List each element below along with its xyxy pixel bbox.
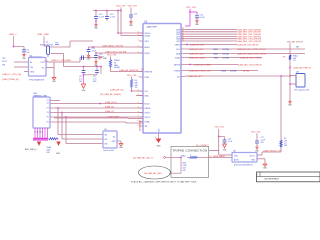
svg-text:VRG: VRG: [145, 41, 150, 43]
svg-text:(CAM_AF_SDA_FUSE_1V8 (R: (CAM_AF_SDA_FUSE_1V8 (R: [237, 52, 266, 55]
svg-text:B2: B2: [182, 33, 184, 35]
svg-text:R8: R8: [283, 57, 285, 59]
svg-text:I2C_DATA_MAIN: I2C_DATA_MAIN: [209, 155, 225, 158]
svg-text:(2R2A): (2R2A): [223, 56, 230, 59]
svg-text:DNI: DNI: [47, 152, 51, 154]
svg-text:P4: P4: [47, 112, 49, 114]
svg-text:B2: B2: [182, 40, 184, 42]
svg-text:1%: 1%: [293, 60, 296, 62]
svg-text:VREG: VREG: [175, 45, 181, 47]
svg-text:R8A2: R8A2: [213, 52, 219, 55]
svg-text:DNI: DNI: [284, 145, 288, 147]
svg-text:VDD_1V8: VDD_1V8: [127, 75, 137, 77]
svg-text:IN2: IN2: [105, 139, 108, 141]
svg-text:1%: 1%: [135, 87, 138, 89]
svg-text:A11A12A13A1: A11A12A13A1: [138, 120, 141, 131]
svg-text:PLACE ALL CAMERA COMPONENTS N: PLACE ALL CAMERA COMPONENTS NEXT TO BATT…: [131, 181, 197, 183]
svg-text:A1/IN: A1/IN: [234, 159, 239, 162]
svg-text:VDD_1V8: VDD_1V8: [251, 131, 261, 133]
svg-text:CAM_HREF: CAM_HREF: [108, 115, 120, 118]
svg-text:TP8: TP8: [2, 58, 5, 60]
svg-text:(R) CAM_AF_CAL(: (R) CAM_AF_CAL(: [144, 172, 162, 175]
svg-text:MCLK: MCLK: [145, 104, 151, 106]
svg-text:(CAM_AF_SCL: (CAM_AF_SCL: [189, 48, 204, 51]
svg-text:R5A1: R5A1: [181, 155, 186, 158]
svg-text:TPS_regulator_R8: TPS_regulator_R8: [294, 89, 309, 92]
svg-text:(CAM_AF_SCL: (CAM_AF_SCL: [110, 88, 125, 91]
svg-text:VDD_1V8: VDD_1V8: [186, 7, 197, 9]
svg-text:GND: GND: [56, 153, 61, 155]
svg-text:(CAM_AF_PWDN_1V8: (CAM_AF_PWDN_1V8: [189, 69, 211, 72]
svg-text:(CAM_AF_I2C: (CAM_AF_I2C: [188, 75, 202, 78]
svg-text:SDA2: SDA2: [175, 57, 180, 60]
svg-text:SCL/O: SCL/O: [250, 156, 256, 158]
svg-text:P3: P3: [47, 108, 49, 110]
svg-text:4: 4: [138, 40, 139, 42]
svg-text:CAM0_MIPI: CAM0_MIPI: [146, 26, 157, 29]
svg-text:SCL: SCL: [176, 49, 180, 51]
svg-text:0.1uF: 0.1uF: [110, 16, 116, 18]
svg-text:PWDN: PWDN: [174, 71, 180, 73]
svg-text:(CAM_RT: (CAM_RT: [105, 110, 115, 113]
svg-text:TP9: TP9: [55, 42, 58, 44]
svg-text:BOX-XXX-GROWN-TR: BOX-XXX-GROWN-TR: [234, 165, 253, 167]
svg-text:0: 0: [190, 155, 191, 157]
svg-text:Touch switch: Touch switch: [103, 149, 114, 152]
svg-text:(CAM_AF_PWR (R: (CAM_AF_PWR (R: [293, 66, 311, 69]
svg-text:NO_CONNECT: NO_CONNECT: [196, 145, 209, 147]
svg-text:TRIPAD CONNECTION: TRIPAD CONNECTION: [173, 149, 208, 153]
svg-text:VDD_AF_2V8_(R: VDD_AF_2V8_(R: [287, 41, 303, 44]
svg-text:TM: TM: [145, 126, 148, 128]
svg-text:(CAM_AF_RESETB: (CAM_AF_RESETB: [119, 69, 138, 72]
svg-text:DVDD: DVDD: [145, 53, 151, 55]
svg-text:1 2 3 4 5 6: 1 2 3 4 5 6: [34, 131, 43, 133]
svg-text:(R): (R): [141, 69, 144, 71]
svg-text:PWDN: PWDN: [145, 108, 151, 110]
svg-text:(CAM_AF_SDA: (CAM_AF_SDA: [189, 52, 204, 55]
svg-text:VDDA: VDDA: [145, 35, 151, 38]
svg-text:(CAM_AF1_2V8_FUSE (R: (CAM_AF1_2V8_FUSE (R: [238, 63, 262, 66]
svg-text:B2: B2: [182, 28, 184, 30]
svg-text:(CAM_AF_SD_FUSE (R: (CAM_AF_SD_FUSE (R: [240, 56, 262, 59]
svg-text:AF2V8: AF2V8: [174, 64, 180, 67]
svg-text:P2: P2: [47, 103, 49, 105]
svg-text:CAM_MIPI_CKP_(R8 (R8: CAM_MIPI_CKP_(R8 (R8: [237, 40, 262, 43]
svg-text:B2: B2: [182, 31, 184, 33]
svg-text:GND: GND: [251, 160, 256, 162]
svg-text:DNI: DNI: [183, 170, 187, 172]
svg-text:VBAT_C: VBAT_C: [9, 33, 17, 36]
svg-text:LGE INTERFACE: LGE INTERFACE: [264, 178, 280, 181]
svg-text:5: 5: [155, 137, 156, 139]
svg-text:R8A1: R8A1: [213, 48, 219, 51]
svg-text:VDD_1V8: VDD_1V8: [107, 55, 117, 57]
svg-text:6R3: 6R3: [93, 81, 96, 83]
svg-text:(2R2A): (2R2A): [223, 52, 230, 55]
svg-text:AVDD: AVDD: [145, 46, 151, 49]
svg-text:STBY: STBY: [145, 77, 151, 79]
svg-text:IN1: IN1: [105, 135, 108, 137]
svg-text:GND: GND: [112, 141, 117, 143]
svg-text:ANT_GND(+): ANT_GND(+): [25, 148, 37, 151]
svg-text:TPS22910AYZVR: TPS22910AYZVR: [29, 79, 45, 82]
svg-text:(CAM_PWDN_(R): (CAM_PWDN_(R): [2, 78, 19, 81]
svg-text:DNI: DNI: [2, 65, 6, 67]
svg-text:(CAM_MCLK: (CAM_MCLK: [105, 101, 117, 104]
svg-text:GPIO1: GPIO1: [145, 113, 151, 115]
svg-text:VDD_2V8: VDD_2V8: [128, 5, 138, 7]
svg-text:(CAM_AF_SCL_FUSE_1V8 (R: (CAM_AF_SCL_FUSE_1V8 (R: [237, 48, 266, 51]
svg-text:VDD_1V8: VDD_1V8: [215, 127, 225, 129]
svg-text:P6: P6: [47, 122, 49, 124]
svg-text:(CAM_PD: (CAM_PD: [105, 105, 115, 108]
svg-text:B2: B2: [182, 35, 184, 37]
svg-text:(2R2A): (2R2A): [230, 69, 237, 72]
svg-text:T: T: [257, 174, 258, 176]
svg-text:0.1uF: 0.1uF: [99, 57, 105, 59]
svg-text:P5: P5: [47, 117, 49, 119]
svg-text:Q8: Q8: [296, 72, 299, 74]
svg-text:IN3: IN3: [105, 144, 108, 146]
svg-text:(R) CAM_AF_CAL_T(: (R) CAM_AF_CAL_T(: [133, 157, 154, 160]
svg-text:R8A8: R8A8: [221, 69, 227, 72]
svg-text:(CAM_AF_2V8_(R8 (R: (CAM_AF_2V8_(R8 (R: [237, 43, 259, 46]
svg-text:STRB: STRB: [145, 122, 151, 124]
svg-text:0.1uF: 0.1uF: [99, 16, 105, 18]
svg-text:(R) (CAM_AF_SDA(R): (R) (CAM_AF_SDA(R): [100, 93, 121, 96]
svg-text:(CAM_AF_2V8: (CAM_AF_2V8: [190, 43, 205, 46]
svg-text:(CAM_SWCLK_1P8: (CAM_SWCLK_1P8: [263, 149, 283, 152]
svg-text:(CAM_AF_SDA2: (CAM_AF_SDA2: [189, 56, 206, 59]
svg-text:RESETB: RESETB: [145, 72, 153, 74]
svg-text:4: 4: [138, 76, 139, 78]
svg-text:R8 NM: R8 NM: [243, 70, 250, 72]
svg-text:(2R2A): (2R2A): [114, 66, 120, 69]
svg-text:(CAM_AF_2V8(R): (CAM_AF_2V8(R): [194, 63, 211, 66]
svg-text:VBAT_CAM: VBAT_CAM: [37, 33, 49, 36]
svg-text:GND: GND: [30, 71, 35, 73]
svg-text:(CAM_IO_1V8_(C)A: (CAM_IO_1V8_(C)A: [2, 73, 22, 76]
svg-text:(CAM_IO_1V8_MAIN: (CAM_IO_1V8_MAIN: [51, 59, 71, 62]
svg-text:C8 0.1: C8 0.1: [2, 61, 7, 63]
svg-text:P1: P1: [47, 100, 49, 102]
svg-text:GND: GND: [157, 145, 162, 147]
svg-text:(2R2A): (2R2A): [223, 48, 230, 51]
svg-text:GPIO2: GPIO2: [145, 117, 151, 119]
svg-text:VDD_1V8: VDD_1V8: [116, 5, 126, 7]
svg-text:SCL: SCL: [145, 91, 149, 93]
svg-text:CAMERA_CONN: CAMERA_CONN: [33, 95, 48, 98]
svg-text:0.1uF: 0.1uF: [200, 17, 206, 19]
svg-text:B2: B2: [182, 37, 184, 39]
